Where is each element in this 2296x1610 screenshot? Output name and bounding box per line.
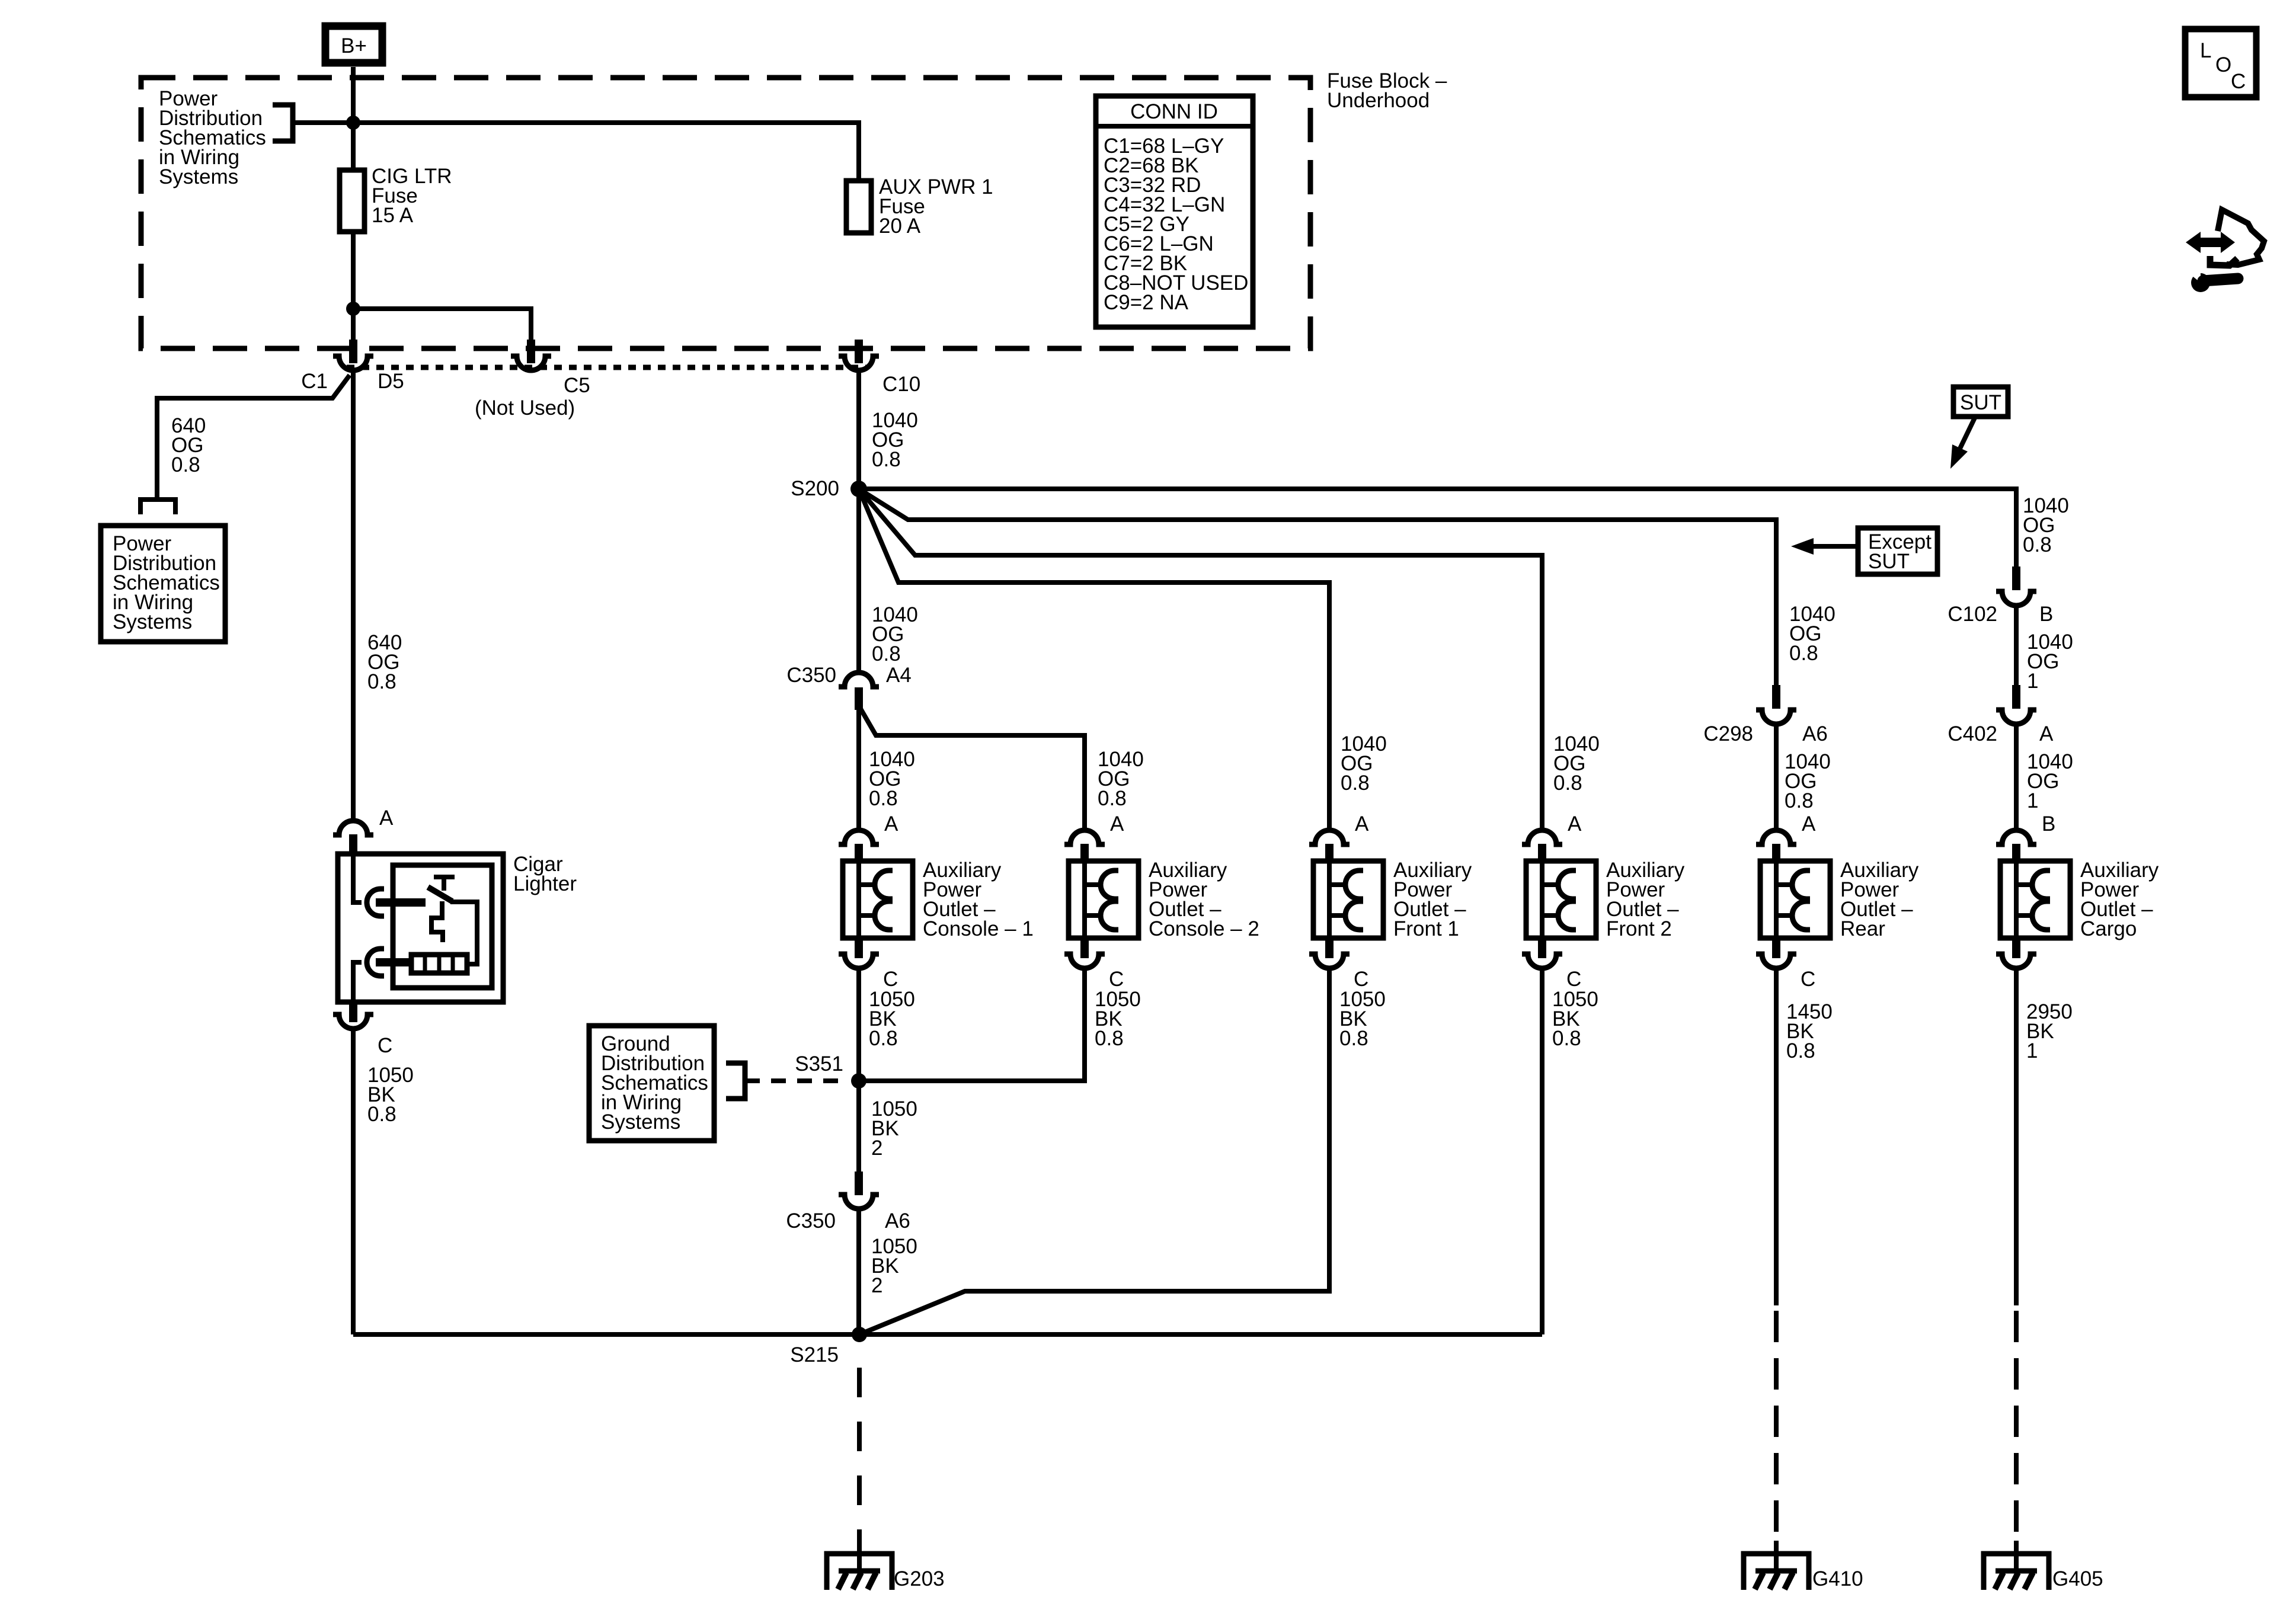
svg-text:C9=2 NA: C9=2 NA <box>1104 291 1189 314</box>
label 640 OG 0.8 <box>171 414 206 476</box>
svg-text:C298: C298 <box>1703 722 1753 745</box>
svg-text:Systems: Systems <box>113 610 192 633</box>
fuse CIG LTR 15 A <box>340 165 452 232</box>
svg-text:0.8: 0.8 <box>872 642 901 665</box>
ground distribution schematics box <box>589 1026 714 1141</box>
svg-text:C: C <box>2231 70 2246 93</box>
svg-text:1: 1 <box>2026 1039 2038 1062</box>
connector C5 (not used) <box>475 340 590 420</box>
ground G405 <box>1984 1541 2103 1590</box>
svg-text:C: C <box>1801 968 1815 991</box>
wire console 2 to S351 <box>859 968 1085 1081</box>
svg-text:G203: G203 <box>894 1567 945 1590</box>
svg-text:G405: G405 <box>2052 1567 2103 1590</box>
label 1040 OG 0.8 (cargo feed) <box>2023 494 2069 556</box>
svg-text:0.8: 0.8 <box>1785 789 1814 812</box>
wire cargo outlet to G405 <box>2014 968 2019 1305</box>
svg-text:15 A: 15 A <box>372 204 414 227</box>
svg-text:0.8: 0.8 <box>869 1027 898 1050</box>
svg-text:2: 2 <box>871 1274 882 1297</box>
cigar lighter <box>338 853 577 1002</box>
ground G203 <box>827 1541 945 1590</box>
svg-text:0.8: 0.8 <box>1095 1027 1124 1050</box>
auxiliary power outlet Cargo <box>2000 859 2159 940</box>
auxiliary power outlet Console – 2 <box>1069 859 1259 940</box>
label 1040 OG 0.8 <box>872 409 918 471</box>
wire C298 to rear outlet <box>1774 724 1779 830</box>
vehicle service icon <box>2186 210 2264 292</box>
reference bracket <box>726 1063 745 1099</box>
svg-text:C350: C350 <box>786 1209 836 1233</box>
wire front 1 return to S215 <box>859 968 1329 1334</box>
svg-text:G410: G410 <box>1812 1567 1863 1590</box>
svg-text:C5: C5 <box>564 374 590 397</box>
auxiliary power outlet Console – 1 <box>843 859 1034 940</box>
svg-text:S215: S215 <box>790 1343 839 1366</box>
svg-text:C1: C1 <box>301 370 328 393</box>
power distribution schematics box <box>101 526 225 642</box>
svg-text:0.8: 0.8 <box>1098 787 1127 810</box>
svg-text:20 A: 20 A <box>879 215 921 238</box>
connector pin C below outlet <box>839 938 879 968</box>
svg-text:0.8: 0.8 <box>171 453 200 476</box>
svg-text:A: A <box>1355 812 1369 836</box>
svg-text:1: 1 <box>2027 670 2038 693</box>
svg-text:L: L <box>2200 39 2211 62</box>
reference bracket <box>273 105 293 141</box>
svg-text:0.8: 0.8 <box>1339 1027 1368 1050</box>
svg-text:Rear: Rear <box>1840 917 1885 940</box>
svg-text:Front 1: Front 1 <box>1393 917 1459 940</box>
label fuse block underhood <box>1327 69 1447 112</box>
label 1050 BK 0.8 <box>367 1064 414 1126</box>
label 1040 OG 1 <box>2027 630 2073 693</box>
wire S215 to G203 (dashed) <box>857 1368 862 1541</box>
wire console 1 to S351 <box>856 968 861 1081</box>
svg-text:A: A <box>1568 812 1582 836</box>
auxiliary power outlet Rear <box>1760 859 1919 940</box>
svg-text:A: A <box>884 812 898 836</box>
SUT flag <box>1950 387 2008 469</box>
svg-text:A: A <box>1802 812 1816 836</box>
loc box <box>2185 29 2256 97</box>
connector C350 pin A6 <box>786 1172 910 1233</box>
splice S200 <box>791 477 867 500</box>
wire C402 to cargo outlet <box>2014 724 2019 830</box>
label 1050 BK 0.8 <box>869 988 915 1050</box>
wire C350 to console 1 outlet <box>856 708 861 830</box>
label 1040 OG 0.8 (rear feed) <box>1789 603 1835 665</box>
note: power distribution schematics (top left) <box>159 87 266 188</box>
svg-text:A: A <box>2039 722 2054 745</box>
wire C1 to power distribution schematics <box>140 375 350 514</box>
dashed reference wire to S351 <box>745 1078 849 1083</box>
svg-text:0.8: 0.8 <box>1552 1027 1581 1050</box>
connector pin A (Console – 2) <box>1064 830 1105 861</box>
wire C350 A6 to S215 <box>856 1209 861 1334</box>
svg-text:C402: C402 <box>1948 722 1997 745</box>
connector pin C below outlet <box>1756 938 1796 968</box>
svg-text:Cargo: Cargo <box>2080 917 2137 940</box>
label 1450 BK 0.8 <box>1786 1000 1833 1062</box>
auxiliary power outlet Front 2 <box>1526 859 1685 940</box>
label 1050 BK 2 <box>871 1097 917 1160</box>
svg-text:0.8: 0.8 <box>1553 772 1582 795</box>
wire B+ bus to AUX PWR 1 fuse <box>293 123 859 181</box>
svg-text:0.8: 0.8 <box>367 1103 396 1126</box>
svg-text:B: B <box>2039 603 2053 626</box>
svg-text:S200: S200 <box>791 477 839 500</box>
svg-text:Console – 1: Console – 1 <box>923 917 1034 940</box>
label 1040 OG 0.8 <box>872 603 918 665</box>
svg-text:A6: A6 <box>1802 722 1828 745</box>
wire S200 to C102 (SUT) <box>859 489 2016 566</box>
svg-text:Systems: Systems <box>159 165 238 188</box>
connector pin C below outlet <box>1064 938 1105 968</box>
svg-text:SUT: SUT <box>1868 550 1910 573</box>
connector pin C below outlet <box>1309 938 1350 968</box>
ground bus wire <box>353 1332 1542 1337</box>
svg-text:0.8: 0.8 <box>1789 642 1818 665</box>
svg-text:S351: S351 <box>795 1052 843 1076</box>
connector pin C below outlet <box>1522 938 1562 968</box>
svg-text:0.8: 0.8 <box>1341 772 1370 795</box>
svg-text:A4: A4 <box>886 664 912 687</box>
svg-text:A: A <box>379 806 394 830</box>
svg-text:A6: A6 <box>885 1209 910 1233</box>
svg-text:Console – 2: Console – 2 <box>1149 917 1259 940</box>
wire branch to console 2 outlet <box>861 709 1085 830</box>
label 1040 OG 0.8 (front 2) <box>1553 732 1600 795</box>
fuse block underhood dashed box <box>141 78 1310 348</box>
wire B+ down to CIG LTR fuse <box>351 67 356 170</box>
label 1040 OG 0.8 (console 1) <box>869 748 915 810</box>
svg-text:C102: C102 <box>1948 603 1997 626</box>
svg-text:1: 1 <box>2027 789 2038 812</box>
connector C298 pin A6 <box>1703 685 1827 745</box>
connector C1 / D5 <box>301 340 404 393</box>
svg-text:C: C <box>378 1034 392 1057</box>
connector C102 pin B <box>1948 566 2053 626</box>
svg-text:D5: D5 <box>378 370 404 393</box>
wire S200 to front 1 outlet <box>859 489 1329 830</box>
wire S351 to C350 A6 <box>856 1081 861 1172</box>
svg-text:0.8: 0.8 <box>872 448 901 471</box>
svg-text:A: A <box>1110 812 1124 836</box>
connector C10 <box>839 340 920 396</box>
wire rear outlet to G410 <box>1774 968 1779 1305</box>
junction <box>346 116 360 130</box>
label 1040 OG 0.8 <box>1785 750 1831 812</box>
label 1050 BK 0.8 <box>1095 988 1141 1050</box>
connector pin C (cigar lighter) <box>333 1002 373 1029</box>
power symbol B+ <box>325 26 382 63</box>
svg-text:Systems: Systems <box>601 1110 680 1134</box>
except SUT flag <box>1791 528 1937 574</box>
wire S200 to front 2 outlet <box>859 489 1542 830</box>
connector pin A (Rear) <box>1756 830 1796 861</box>
wire cigar lighter ground to S215 <box>351 1029 356 1334</box>
svg-text:2: 2 <box>871 1137 882 1160</box>
connector C402 pin A <box>1948 685 2054 745</box>
wire D5 to cigar lighter <box>351 370 356 821</box>
label 1040 OG 1 <box>2027 750 2073 812</box>
svg-text:O: O <box>2215 53 2231 76</box>
wire C10 to S200 <box>856 370 861 489</box>
svg-text:0.8: 0.8 <box>869 787 898 810</box>
label 1040 OG 0.8 (console 2) <box>1098 748 1144 810</box>
connector pin A (Front 1) <box>1309 830 1350 861</box>
connector pin C below outlet <box>1996 938 2036 968</box>
svg-text:0.8: 0.8 <box>2023 533 2052 556</box>
wire C102 to C402 <box>2014 606 2019 685</box>
label 1050 BK 2 <box>871 1235 917 1297</box>
svg-text:0.8: 0.8 <box>1786 1039 1815 1062</box>
label 1040 OG 0.8 (front 1) <box>1341 732 1387 795</box>
svg-text:(Not Used): (Not Used) <box>475 396 575 420</box>
svg-text:SUT: SUT <box>1960 391 2001 414</box>
svg-text:Front 2: Front 2 <box>1606 917 1672 940</box>
connector face dotted line <box>347 365 866 370</box>
svg-text:C350: C350 <box>786 664 836 687</box>
wire S200 to C298 (except SUT) <box>859 489 1776 685</box>
connector pin A (Front 2) <box>1522 830 1562 861</box>
splice S215 <box>790 1327 867 1366</box>
connector pin B (Cargo) <box>1996 830 2036 861</box>
connector C350 pin A4 <box>786 664 911 710</box>
wire CIG fuse to C1, stub to C5 <box>353 232 531 341</box>
auxiliary power outlet Front 1 <box>1313 859 1472 940</box>
svg-text:B+: B+ <box>341 34 367 57</box>
ground G410 <box>1744 1541 1863 1590</box>
label 1050 BK 0.8 <box>1339 988 1386 1050</box>
connector pin A (cigar lighter) <box>333 821 373 854</box>
label 1050 BK 0.8 <box>1552 988 1598 1050</box>
svg-text:Underhood: Underhood <box>1327 89 1430 112</box>
splice S351 <box>795 1052 866 1089</box>
svg-text:CONN ID: CONN ID <box>1130 100 1218 123</box>
svg-text:0.8: 0.8 <box>367 670 396 693</box>
conn id table <box>1096 96 1253 327</box>
label 2950 BK 1 <box>2026 1000 2073 1062</box>
wire S200 to C350 <box>856 489 861 673</box>
svg-text:Lighter: Lighter <box>513 872 577 895</box>
fuse AUX PWR 1 20 A <box>846 175 993 238</box>
connector pin A (Console – 1) <box>839 830 879 861</box>
svg-text:C10: C10 <box>882 373 920 396</box>
label 640 OG 0.8 <box>367 631 402 693</box>
wire front 2 return to S215 <box>1540 968 1544 1334</box>
svg-text:B: B <box>2042 812 2055 836</box>
